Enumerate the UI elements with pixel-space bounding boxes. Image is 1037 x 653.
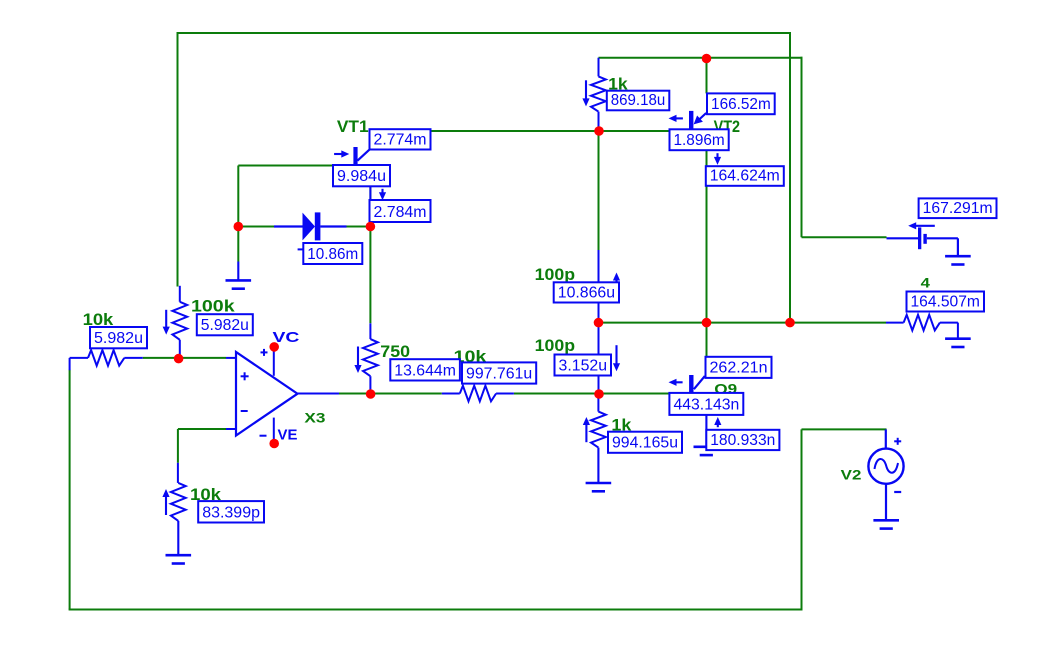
value box C1 10.866u — [554, 282, 619, 302]
svg-text:2.774m: 2.774m — [374, 131, 427, 148]
source V2 bottom lead — [885, 484, 887, 520]
node dot rail VT2 — [702, 54, 712, 64]
op-amp X3 minus input stub — [226, 428, 236, 430]
resistor R7 1k current arrow — [585, 424, 587, 442]
wire VT1-VT2 base net — [431, 130, 670, 132]
value box VT1 emitter 2.784m — [370, 200, 431, 222]
transistor Q9 base current arrow — [676, 381, 683, 383]
node dot VE — [269, 439, 279, 449]
wire left feedback vertical — [69, 370, 71, 610]
resistor R5 750 top lead — [369, 323, 371, 339]
op-amp X3 triangle — [236, 352, 298, 436]
transistor Q9 emitter lead — [705, 415, 707, 446]
resistor R3 10k body — [171, 483, 186, 521]
resistor R1 10k body — [88, 350, 124, 366]
transistor VT1 base bar — [353, 147, 357, 164]
source V2 sine wave — [875, 459, 899, 473]
transistor Q9 base bar — [689, 375, 693, 394]
svg-text:4: 4 — [921, 275, 931, 291]
transistor Q9 collector diagonal — [694, 376, 705, 389]
value box VT1 base 9.984u — [333, 165, 390, 186]
ground below battery — [945, 255, 971, 258]
wire VT1 base horizontal — [238, 165, 333, 167]
source V2 top lead — [885, 429, 887, 449]
transistor VT2 emitter diagonal — [698, 113, 707, 121]
node dot VT2 emitter row — [702, 318, 712, 328]
wire diode node to ground — [237, 227, 239, 262]
node dot cap middle row — [594, 318, 604, 328]
svg-text:10.866u: 10.866u — [558, 284, 615, 301]
wire top loop left vertical — [177, 32, 179, 287]
svg-text:262.21n: 262.21n — [710, 360, 768, 377]
capacitor C2 lead — [598, 323, 600, 394]
svg-text:100p: 100p — [535, 265, 575, 284]
battery V1 short plate — [923, 234, 926, 244]
resistor R6 10k right lead — [496, 393, 514, 395]
value box R3 83.399p — [198, 501, 264, 522]
value box battery 167.291m — [919, 198, 997, 218]
value box VT2 collector 166.52m — [707, 93, 775, 114]
resistor R2 100k body — [172, 302, 187, 340]
value box Q9 base 443.143n — [669, 393, 743, 415]
svg-text:V2: V2 — [841, 466, 862, 482]
ground below diode node — [237, 262, 239, 281]
value box diode 10.86m — [303, 243, 362, 264]
svg-text:10.86m: 10.86m — [307, 246, 358, 263]
op-amp X3 plus sign — [241, 375, 249, 377]
svg-text:869.18u: 869.18u — [611, 92, 666, 109]
diode D1 cathode bar — [315, 212, 321, 240]
resistor R5 750 current arrow — [357, 347, 359, 367]
svg-text:100p: 100p — [535, 336, 575, 355]
resistor R5 750 bottom lead — [369, 376, 371, 394]
op-amp X3 VC pin line — [273, 347, 275, 376]
transistor Q9 emitter current arrow — [717, 424, 719, 427]
resistor R3 10k top lead — [177, 463, 179, 483]
node dot diode cathode — [366, 222, 376, 232]
ground below R8 — [945, 337, 971, 340]
wire +input row — [143, 357, 226, 359]
value box R5 13.644m — [390, 359, 460, 380]
svg-text:VE: VE — [278, 426, 298, 443]
value box R8 164.507m — [907, 292, 985, 312]
source V2 minus sign — [894, 491, 901, 493]
value box Q9 collector 262.21n — [706, 357, 772, 378]
wire output row right — [514, 393, 670, 395]
capacitor C2 current arrow — [615, 345, 617, 364]
resistor R6 10k left lead — [442, 393, 460, 395]
value box R1 5.982u — [90, 327, 147, 348]
wire V2 loop horizontal — [802, 428, 887, 430]
resistor R1 10k right lead — [124, 357, 143, 359]
node dot cap output row — [594, 389, 604, 399]
svg-text:997.761u: 997.761u — [466, 365, 532, 382]
svg-text:83.399p: 83.399p — [202, 504, 260, 521]
wire stub below R1 corner — [69, 358, 71, 370]
transistor VT1 collector diagonal — [357, 149, 370, 161]
svg-text:750: 750 — [380, 342, 410, 361]
node dot top loop middle row — [785, 318, 795, 328]
value box R2 5.982u — [197, 314, 253, 335]
svg-text:5.982u: 5.982u — [94, 330, 143, 347]
svg-text:164.507m: 164.507m — [910, 293, 980, 310]
resistor R1 10k left lead — [70, 357, 88, 359]
op-amp X3 plus input stub — [226, 357, 236, 359]
battery V1 long plate — [918, 227, 921, 249]
diode D1 cathode lead — [320, 225, 346, 227]
source V2 plus sign — [894, 440, 901, 442]
resistor R8 4 down lead — [957, 323, 959, 339]
capacitor C1 lead — [598, 250, 600, 323]
wire VT1 base vertical — [237, 166, 239, 227]
transistor VT1 emitter link — [369, 186, 371, 200]
resistor R3 10k current arrow — [165, 496, 167, 515]
transistor VT2 base bar — [689, 111, 693, 130]
resistor R7 1k top lead — [597, 394, 599, 412]
wire bottom — [69, 609, 803, 611]
op-amp X3 minus sign — [241, 410, 248, 412]
svg-text:443.143n: 443.143n — [673, 397, 739, 414]
value box VT2 base 1.896m — [670, 129, 729, 150]
wire Q9 collector — [706, 323, 708, 357]
value box R6 997.761u — [462, 362, 536, 383]
diode D1 triangle — [303, 213, 316, 241]
op-amp X3 VE minus sign — [260, 435, 267, 437]
value box diode tick — [298, 248, 304, 250]
transistor VT2 base current arrow — [676, 117, 683, 119]
op-amp X3 VE pin line — [273, 418, 275, 444]
wire V2 loop vertical — [801, 429, 803, 609]
transistor VT1 base current arrow — [334, 153, 342, 155]
resistor R7 1k body — [591, 412, 606, 448]
wire node to R750 — [369, 227, 371, 324]
ground below V2 — [873, 519, 899, 522]
node dot VC — [269, 342, 279, 352]
resistor R4 1k body — [591, 76, 606, 111]
transistor VT2 emitter arrowhead — [694, 116, 703, 125]
wire VT1 emitter column — [369, 186, 371, 227]
resistor R8 4 right lead — [940, 322, 958, 324]
wire to battery — [802, 236, 887, 238]
wire diode anode — [238, 226, 274, 228]
svg-text:166.52m: 166.52m — [711, 96, 771, 113]
battery V1 down lead — [957, 238, 959, 256]
svg-text:167.291m: 167.291m — [923, 200, 993, 217]
value box VT2 emitter 164.624m — [706, 166, 784, 186]
svg-text:180.933n: 180.933n — [710, 432, 775, 449]
svg-text:VT1: VT1 — [337, 117, 369, 136]
op-amp X3 output lead — [298, 393, 340, 395]
resistor R4 1k top lead — [598, 58, 600, 77]
resistor R2 100k top lead — [179, 286, 181, 302]
value box Q9 emitter 180.933n — [706, 430, 779, 450]
value box VT1 collector 2.774m — [370, 129, 431, 149]
node dot diode anode — [234, 222, 244, 232]
svg-text:5.982u: 5.982u — [201, 317, 249, 334]
wire top loop right vertical — [789, 32, 791, 323]
svg-text:3.152u: 3.152u — [559, 357, 608, 374]
battery V1 right lead — [927, 237, 958, 239]
svg-text:13.644m: 13.644m — [394, 362, 456, 379]
svg-text:1.896m: 1.896m — [674, 132, 725, 149]
transistor VT1 emitter current arrow — [381, 189, 383, 193]
svg-text:994.165u: 994.165u — [612, 435, 678, 452]
wire VT2 collector stub — [706, 59, 708, 94]
resistor R5 750 body — [363, 339, 378, 376]
resistor R4 1k bottom lead — [598, 112, 600, 131]
transistor VT2 emitter current arrow — [716, 153, 718, 158]
resistor R2 100k current arrow — [165, 310, 167, 328]
capacitor C1 current arrow — [615, 280, 617, 283]
value box R7 994.165u — [608, 432, 682, 453]
battery V1 left lead — [887, 237, 919, 239]
resistor R8 4 body — [904, 315, 940, 331]
resistor R8 4 left lead — [886, 322, 904, 324]
ground below Q9 — [694, 445, 720, 448]
wire positive rail — [599, 57, 803, 59]
wire -input horizontal — [178, 428, 226, 430]
wire diode cathode to node — [347, 226, 371, 228]
svg-text:9.984u: 9.984u — [337, 168, 386, 185]
wire cap column upper — [598, 131, 600, 250]
svg-text:100k: 100k — [191, 297, 235, 316]
op-amp X3 VC plus sign — [261, 351, 268, 353]
wire rail right vertical — [801, 57, 803, 238]
wire middle row — [599, 322, 887, 324]
node dot base net — [594, 126, 604, 136]
wire -input vertical — [177, 429, 179, 463]
ground below R7 — [597, 448, 599, 483]
svg-text:X3: X3 — [304, 410, 325, 426]
diode D1 anode lead — [274, 225, 303, 227]
battery V1 current arrow — [915, 225, 935, 227]
value box R4 869.18u — [607, 91, 670, 111]
node dot +input — [174, 354, 184, 364]
wire VT2 emitter column — [706, 150, 708, 322]
svg-text:164.624m: 164.624m — [710, 168, 780, 185]
node dot R750 output — [366, 389, 376, 399]
wire output row left — [339, 393, 442, 395]
resistor R6 10k body — [460, 386, 496, 402]
resistor R4 1k current arrow — [585, 80, 587, 99]
value box C2 3.152u — [555, 355, 612, 376]
svg-text:2.784m: 2.784m — [374, 204, 427, 221]
wire top loop horizontal — [177, 32, 791, 34]
ground below R3 — [177, 521, 179, 555]
source V2 circle — [868, 449, 903, 484]
resistor R2 100k bottom lead — [179, 340, 181, 359]
